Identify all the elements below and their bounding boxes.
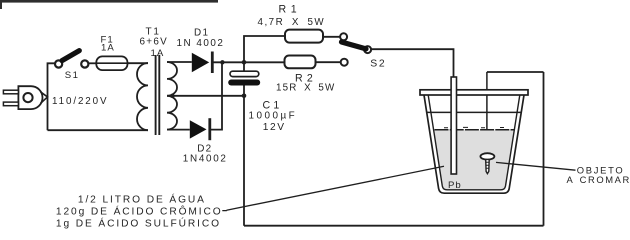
- wire plug to S1: [48, 63, 55, 97]
- label C1 value 12V: [263, 122, 286, 133]
- wire D1 cathode to junction and R2: [214, 61, 285, 63]
- svg-text:1/2 LITRO DE ÁGUA: 1/2 LITRO DE ÁGUA: [78, 193, 206, 206]
- label R1: [279, 3, 302, 15]
- node center tap: [170, 94, 174, 98]
- wire capacitor bottom to junction: [243, 86, 245, 96]
- label D2: [197, 143, 212, 154]
- svg-text:4,7R X 5W: 4,7R X 5W: [258, 17, 326, 28]
- beaker back rim line: [427, 111, 522, 113]
- liquid surface line: [435, 127, 515, 129]
- wire junction to capacitor top: [243, 62, 245, 71]
- svg-text:6+6V: 6+6V: [140, 37, 169, 48]
- wire fuse to transformer primary: [128, 62, 149, 64]
- svg-text:1A: 1A: [151, 48, 165, 59]
- transformer T1 primary coil: [137, 63, 148, 130]
- svg-text:12V: 12V: [263, 122, 286, 133]
- label T1 value 1A: [151, 48, 165, 59]
- label F1: [101, 35, 114, 46]
- label C1 value 1000uF: [249, 111, 298, 122]
- svg-text:1g DE ÁCIDO SULFÚRICO: 1g DE ÁCIDO SULFÚRICO: [56, 216, 221, 229]
- wire R1 to S2 contact: [323, 36, 340, 38]
- wire object hanger: [486, 72, 488, 154]
- node positive rail junction: [242, 60, 247, 65]
- label Pb: [448, 180, 462, 191]
- svg-text:1000µF: 1000µF: [249, 111, 298, 122]
- wire bottom return rail: [244, 225, 544, 227]
- wire junction up to R1: [244, 36, 285, 62]
- wire secondary top to D1: [167, 61, 192, 63]
- node D1-D2 junction: [220, 60, 224, 64]
- resistor R1: [285, 30, 323, 43]
- label solution line 3: [56, 216, 221, 229]
- svg-text:S1: S1: [65, 70, 80, 81]
- label R1 value 4,7R X 5W: [258, 17, 326, 28]
- beaker outer wall: [424, 95, 524, 193]
- switch S2: [340, 33, 371, 65]
- svg-text:1A: 1A: [101, 43, 115, 54]
- wire object top run: [487, 71, 544, 73]
- plug AC: [3, 86, 47, 109]
- beaker inner wall: [428, 95, 520, 190]
- svg-text:Pb: Pb: [448, 180, 462, 191]
- diode D1: [192, 52, 213, 74]
- label S1: [65, 70, 80, 81]
- callout line to object: [496, 162, 576, 170]
- wire S2 to anode electrode: [371, 49, 453, 77]
- svg-text:1N 4002: 1N 4002: [177, 38, 225, 49]
- switch S1: [55, 51, 88, 68]
- diode D2: [190, 118, 210, 140]
- svg-text:D1: D1: [194, 28, 209, 39]
- label C1: [263, 100, 283, 112]
- wire R2 to S2 contact: [316, 61, 341, 63]
- capacitor C1: [228, 71, 260, 85]
- wire right side down: [543, 72, 545, 226]
- label S2: [370, 59, 386, 70]
- label D2 value 1N4002: [183, 153, 228, 164]
- label solution line 1: [78, 193, 206, 206]
- svg-text:S2: S2: [370, 59, 386, 70]
- object to be chromed: [480, 153, 494, 173]
- label F1 value 1A: [101, 43, 115, 54]
- label D1 value 1N4002: [177, 38, 225, 49]
- fuse F1: [96, 56, 127, 70]
- wire S1 to fuse: [89, 62, 97, 64]
- svg-text:R1: R1: [279, 3, 302, 15]
- svg-text:1N4002: 1N4002: [183, 153, 228, 164]
- transformer T1 core: [156, 55, 160, 135]
- wire plug down to bottom rail: [47, 97, 49, 130]
- resistor R2: [285, 56, 316, 69]
- label A CROMAR: [567, 174, 630, 185]
- label D1: [194, 28, 209, 39]
- svg-text:120g DE ÁCIDO CRÔMICO: 120g DE ÁCIDO CRÔMICO: [56, 205, 223, 218]
- label 110/220V: [52, 96, 108, 107]
- beaker rim: [420, 90, 528, 95]
- wire secondary bottom to D2: [167, 129, 190, 131]
- transformer T1 secondary coil: [167, 62, 177, 130]
- label OBJETO: [577, 165, 625, 176]
- svg-text:110/220V: 110/220V: [52, 96, 108, 107]
- label R2: [295, 72, 317, 84]
- label solution line 2: [56, 205, 223, 218]
- wire bottom rail to transformer: [48, 129, 149, 131]
- svg-text:15R X 5W: 15R X 5W: [276, 83, 335, 94]
- electrode Pb: [451, 77, 456, 174]
- wire left drop from capacitor junction: [243, 96, 245, 226]
- node capacitor bottom junction: [242, 94, 247, 99]
- callout line to solution: [222, 166, 444, 210]
- beaker liquid fill: [433, 130, 514, 189]
- wire center tap: [167, 95, 244, 97]
- label T1: [146, 27, 161, 38]
- label R2 value 15R X 5W: [276, 83, 335, 94]
- label T1 value 6+6V: [140, 37, 169, 48]
- wire D2 cathode up to junction: [211, 62, 222, 129]
- svg-text:A CROMAR: A CROMAR: [567, 174, 630, 185]
